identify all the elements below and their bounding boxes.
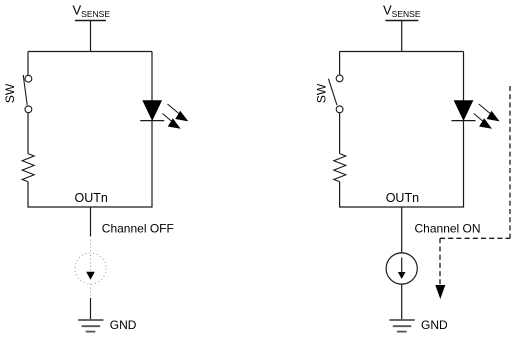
wire: V_SENSE stem (right) bbox=[401, 21, 403, 52]
wire: to ground (left) bbox=[90, 298, 92, 319]
wire: OUTn to current source solid segment (left) bbox=[90, 207, 92, 236]
resistor (left) bbox=[22, 154, 34, 182]
svg-text:SW: SW bbox=[315, 83, 329, 103]
wire: switch to resistor (right) bbox=[339, 113, 341, 154]
power rail bar (left) bbox=[75, 20, 106, 22]
wire: LED to OUTn rail (right) bbox=[463, 121, 465, 207]
wire: resistor to OUTn rail (left) bbox=[27, 182, 29, 207]
net label V_SENSE (right) bbox=[383, 3, 421, 20]
switch SW (left, closed) bbox=[23, 75, 32, 113]
wire: dotted segment below current source (left) bbox=[90, 284, 92, 298]
wire: dotted segment above current source (left) bbox=[90, 236, 92, 253]
wire: V_SENSE stem (left) bbox=[90, 21, 92, 52]
svg-text:Channel OFF: Channel OFF bbox=[102, 221, 174, 235]
dashed path arrowhead bbox=[435, 285, 445, 299]
LED (left) bbox=[140, 101, 188, 129]
wire: OUTn rail (left) bbox=[27, 206, 152, 208]
svg-text:SW: SW bbox=[3, 83, 17, 103]
dashed path: vertical segment to arrow bbox=[439, 238, 441, 285]
wire: OUTn to current source (right) bbox=[401, 207, 403, 253]
net label V_SENSE (left) bbox=[73, 3, 111, 20]
wire: top rail (right) bbox=[340, 51, 464, 53]
svg-text:VSENSE: VSENSE bbox=[73, 3, 111, 20]
wire: top rail down to LED (right) bbox=[463, 52, 465, 101]
current source I (right, active) bbox=[386, 253, 417, 284]
wire: top rail (left) bbox=[28, 51, 152, 53]
svg-text:OUTn: OUTn bbox=[75, 191, 108, 205]
wire: current source to ground (right) bbox=[401, 284, 403, 319]
svg-text:VSENSE: VSENSE bbox=[383, 3, 421, 20]
ground (right) bbox=[389, 320, 414, 332]
resistor (right) bbox=[334, 154, 346, 182]
wire: rail down to switch (left) bbox=[27, 52, 29, 76]
svg-text:OUTn: OUTn bbox=[386, 191, 419, 205]
ground (left) bbox=[78, 320, 103, 332]
dashed path: horizontal segment bbox=[440, 237, 510, 239]
wire: LED to OUTn rail (left) bbox=[151, 121, 153, 207]
wire: OUTn rail (right) bbox=[339, 206, 464, 208]
svg-text:GND: GND bbox=[110, 318, 137, 332]
wire: rail down to switch (right) bbox=[339, 52, 341, 76]
power rail bar (right) bbox=[385, 20, 418, 22]
dashed path: light output down right side bbox=[509, 86, 511, 238]
svg-text:Channel ON: Channel ON bbox=[415, 221, 481, 235]
switch SW (right, open) bbox=[328, 75, 343, 113]
svg-text:GND: GND bbox=[421, 318, 448, 332]
LED (right) bbox=[452, 101, 500, 129]
wire: switch to resistor (left) bbox=[27, 113, 29, 154]
wire: top rail down to LED (left) bbox=[151, 52, 153, 101]
current source I (left, disabled, dotted) bbox=[75, 253, 106, 284]
wire: resistor to OUTn rail (right) bbox=[339, 182, 341, 207]
